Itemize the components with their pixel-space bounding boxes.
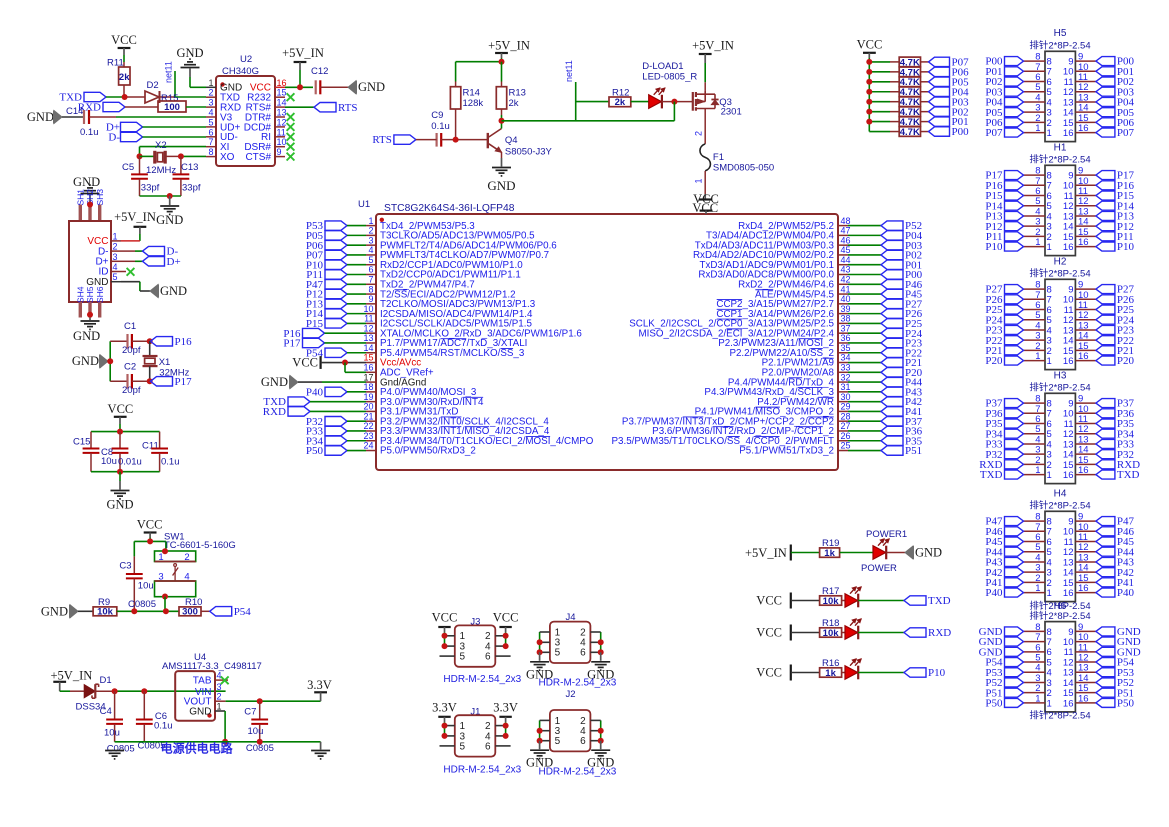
svg-text:GND: GND [156,213,183,227]
svg-text:U2: U2 [240,54,252,65]
port flag P04 (U1 pin 47) [848,234,881,236]
port flag P11 (header H1 pin 2) [1005,232,1024,241]
port flag TXD [904,596,926,605]
port flag P41 (header H4 pin 2) [1005,578,1024,587]
junction [131,608,137,614]
svg-text:5: 5 [555,736,561,747]
svg-text:17: 17 [363,372,373,382]
svg-text:20pf: 20pf [122,385,141,396]
ground flag GND (USB pin5) [150,285,158,298]
svg-text:10: 10 [277,137,287,147]
junction [442,633,448,639]
U1 pin 5 RxD2/CCP1/ADC0/PWM10/P1.0 [366,264,376,266]
port flag P44 (header H4 pin 5) [1005,547,1024,556]
U1 pin 47 T3/AD4/ADC12/PWM04/P0.4 [838,234,848,236]
junction [537,639,543,645]
port flag RXD [103,102,125,111]
svg-text:J2: J2 [566,689,576,700]
U2 pin 2 TXD [206,96,216,98]
svg-text:C5: C5 [122,162,134,173]
svg-text:1: 1 [1047,470,1052,481]
port flag P37 (header H3 pin 9) [1096,399,1115,408]
svg-text:10k: 10k [823,596,840,607]
svg-text:P10: P10 [928,667,946,679]
svg-text:P54: P54 [234,606,252,618]
svg-text:1: 1 [208,78,213,88]
svg-text:36: 36 [841,333,851,343]
USB connector shell pins SH4 SH5 SH6 [79,302,82,318]
svg-text:0.1u: 0.1u [154,721,173,732]
header H2 body [1045,279,1075,369]
port flag P42 (U1 pin 30) [848,401,881,403]
port flag P35 (header H3 pin 11) [1096,419,1115,428]
svg-text:47: 47 [841,226,851,236]
svg-text:7: 7 [208,137,213,147]
port flag RXD (header H3 pin 2) [1005,460,1024,469]
svg-text:排针2*8P-2.54: 排针2*8P-2.54 [1029,710,1090,722]
U1 pin 31 P4.3/PWM43/RxD_4/¬SCLK¬_3 [838,391,848,393]
svg-text:1: 1 [1047,242,1052,253]
svg-text:P07: P07 [1117,127,1135,139]
port flag P25 (header H2 pin 6) [1005,305,1024,314]
port flag RTS (C9) [394,135,416,144]
port flag P33 (header H3 pin 13) [1096,439,1115,448]
U1 pin 18 P4.0/PWM40/MOSI_3 [366,391,376,393]
U1 pin 43 RxD3/AD0/ADC8/PWM00/P0.0 [838,274,848,276]
svg-text:P50: P50 [306,445,324,457]
junction [866,119,872,125]
port flag P25 (U1 pin 38) [848,322,881,324]
port flag D+ (USB) [143,257,165,266]
U1 pin 15 Vcc/AVcc [366,362,376,364]
port flag P14 (U1 pin 10) [325,309,347,318]
resistor R (4.7K) row 2 [869,71,890,73]
port flag P22 (U1 pin 35) [848,352,881,354]
svg-text:+5V_IN: +5V_IN [51,669,93,683]
svg-text:7: 7 [368,274,373,284]
U1 pin 41 ¬ALE¬/PWM45/P4.5 [838,293,848,295]
USB connector shell pins SH1 SH2 SH3 [79,205,82,222]
no-connect X on U2 pin 9 [287,153,295,161]
junction [442,643,448,649]
port flag P23 (U1 pin 36) [848,342,881,344]
port flag P53 (U1 pin 1) [325,221,347,230]
svg-text:9: 9 [277,147,282,157]
svg-text:GND: GND [41,604,68,618]
port flag P32 (header H3 pin 3) [1005,450,1024,459]
svg-text:1: 1 [1047,356,1052,367]
svg-text:POWER: POWER [861,563,897,574]
port flag P23 (header H2 pin 4) [1005,325,1024,334]
wire [440,655,455,657]
svg-text:2k: 2k [615,97,626,108]
U1 pin 2 T3CLKO/AD5/ADC13/PWM05/P0.5 [366,234,376,236]
svg-text:48: 48 [841,216,851,226]
svg-text:GND: GND [73,175,100,189]
wire (net to Q3 gate) [502,120,675,122]
wire [704,171,706,194]
svg-text:P17: P17 [283,338,301,350]
port flag TXD (header H3 pin 16) [1096,470,1115,479]
svg-text:P00: P00 [952,126,970,138]
svg-text:24: 24 [363,441,373,451]
svg-text:300: 300 [182,607,198,618]
svg-text:2: 2 [208,88,213,98]
wire [60,690,70,692]
port flag P07 (header H5 pin 1) [1005,128,1024,137]
no-connect X on U2 pin 10 [287,143,295,151]
port flag P21 (header H2 pin 15) [1096,346,1115,355]
svg-text:2: 2 [184,552,189,563]
svg-text:X2: X2 [155,140,167,151]
wire [95,690,114,692]
port flag D- (USB) [143,246,165,255]
port flag P40 (header H4 pin 16) [1096,588,1115,597]
svg-text:GND: GND [86,277,108,288]
svg-text:0.1u: 0.1u [431,121,450,132]
port flag P54 (header H6 pin 5) [1005,658,1024,667]
junction [866,89,872,95]
wire [444,632,446,646]
junction [442,733,448,739]
svg-text:H3: H3 [1054,371,1067,382]
resistor R (4.7K) row 4 [869,91,890,93]
port flag P12 (header H1 pin 3) [1005,222,1024,231]
junction [257,698,263,704]
port flag P35 (U1 pin 26) [848,440,881,442]
svg-text:GND: GND [72,354,99,368]
svg-text:10k: 10k [97,607,114,618]
wire [165,155,181,157]
wire [868,58,870,132]
svg-text:11: 11 [277,127,286,137]
port flag P54 (header H6 pin 12) [1096,658,1115,667]
wire [108,360,110,362]
svg-text:GND: GND [176,46,203,60]
wire [299,70,301,87]
wires J4 to ground [539,632,541,652]
port flag P32 (U1 pin 21) [325,417,347,426]
port flag P01 (pullup row 7) [929,117,950,126]
U1 pin 3 PWMFLT2/T4/AD6/ADC14/PWM06/P0.6 [366,244,376,246]
svg-text:P40: P40 [985,587,1003,599]
junction [147,338,153,344]
svg-text:P5.1/PWM51/TxD3_2: P5.1/PWM51/TxD3_2 [739,446,834,457]
svg-text:P50: P50 [985,697,1003,709]
svg-text:+5V_IN: +5V_IN [692,39,734,53]
U2 pin 15 R232 [275,96,285,98]
svg-text:P20: P20 [1117,355,1135,367]
U2 pin 7 XI [206,146,216,148]
svg-text:排针2*8P-2.54: 排针2*8P-2.54 [1029,40,1090,52]
svg-text:13: 13 [277,108,287,118]
junction [137,153,143,159]
svg-text:16: 16 [363,363,373,373]
port flag P17 (header H1 pin 8) [1005,171,1024,180]
port flag P10 (U1 pin 5) [325,260,347,269]
svg-text:5: 5 [368,255,373,265]
port flag P26 (U1 pin 39) [848,313,881,315]
wire [444,722,446,736]
U1 pin 23 P3.4/PWM34/T0/T1CLKO/ECI_2/¬MOSI¬_4/CMPO [366,440,376,442]
svg-text:9: 9 [368,294,373,304]
svg-text:STC8G2K64S4-36I-LQFP48: STC8G2K64S4-36I-LQFP48 [384,203,515,214]
wire [858,632,904,634]
port flag P47 (header H4 pin 8) [1005,517,1024,526]
wire [140,146,207,148]
svg-text:VCC: VCC [292,355,318,369]
svg-text:H2: H2 [1054,257,1067,268]
port flag P25 (header H2 pin 11) [1096,305,1115,314]
wire [140,155,155,157]
svg-text:39: 39 [841,304,851,314]
svg-text:P40: P40 [306,386,324,398]
port flag P36 (U1 pin 27) [848,430,881,432]
port flag P06 (pullup row 2) [929,67,950,76]
junction [222,739,228,745]
resistor R13 [501,62,503,82]
junction [147,538,153,544]
U1 pin 36 P2.3/PWM23/A11/¬MOSI¬_2 [838,342,848,344]
svg-text:1k: 1k [825,668,836,679]
svg-text:CTS#: CTS# [245,152,271,163]
svg-text:4.7K: 4.7K [900,127,920,138]
no-connect X on U2 pin 11 [287,133,295,141]
port flag RXD [904,628,926,637]
svg-text:12: 12 [363,323,373,333]
U1 pin 26 P3.5/PWM35/T1/T0CLKO/¬SS¬_4/¬CCP0¬_2/PWMFLT [838,440,848,442]
wire [139,234,141,241]
port flag P16 (header H1 pin 7) [1005,181,1024,190]
ground GND (J4 right) [600,652,602,661]
port flag P04 (pullup row 4) [929,87,950,96]
port flag P15 (header H1 pin 11) [1096,191,1115,200]
U1 pin 24 P5.0/PWM50/RxD3_2 [366,450,376,452]
U1 pin 1 TxD4_2/PWM53/P5.3 [366,225,376,227]
wire [501,58,503,62]
U1 pin 32 P4.4/PWM44/¬RD¬/TxD_4 [838,381,848,383]
svg-text:2: 2 [112,242,117,252]
port flag RXD (U1 pin 20) [288,407,310,416]
svg-text:P5.0/PWM50/RxD3_2: P5.0/PWM50/RxD3_2 [380,446,476,457]
U2 pin 9 CTS# [275,156,285,158]
svg-text:C12: C12 [311,66,328,77]
svg-text:net11: net11 [564,60,574,82]
port flag P11 (U1 pin 6) [325,270,347,279]
U1 pin 6 TxD2/CCP0/ADC1/PWM11/P1.1 [366,274,376,276]
svg-text:4: 4 [368,245,373,255]
port flag P37 (header H3 pin 8) [1005,399,1024,408]
wire [791,600,820,602]
port flag GND (header H6 pin 10) [1096,637,1115,646]
port flag P22 (header H2 pin 3) [1005,336,1024,345]
port flag GND (header H6 pin 11) [1096,647,1115,656]
ground flag GND (right of C12) [348,81,356,94]
svg-text:XO: XO [220,152,235,163]
port flag P46 (header H4 pin 7) [1005,527,1024,536]
port flag GND (header H6 pin 9) [1096,627,1115,636]
svg-text:HDR-M-2.54_2x3: HDR-M-2.54_2x3 [443,674,521,685]
svg-text:38: 38 [841,314,851,324]
port flag P40 (U1 pin 18) [325,387,347,396]
svg-text:LED-0805_R: LED-0805_R [642,72,697,83]
svg-text:RXD: RXD [263,406,286,418]
svg-text:33pf: 33pf [182,182,201,193]
U2 pin 16 VCC [275,86,285,88]
wire [501,115,503,129]
svg-text:排针2*8P-2.54: 排针2*8P-2.54 [1029,268,1090,280]
svg-text:VCC: VCC [137,518,163,532]
svg-text:3: 3 [112,252,117,262]
U1 pin 38 SCLK_2/I2CSCL_2/¬CCP0¬_3/A13/PWM25/P2.5 [838,322,848,324]
wire [673,102,675,121]
svg-text:2k: 2k [509,98,519,109]
svg-text:16: 16 [1063,128,1074,139]
svg-text:2: 2 [217,692,222,702]
svg-text:41: 41 [841,284,851,294]
junction [117,469,123,475]
svg-text:VCC: VCC [493,611,519,625]
U1 pin 7 TxD2_2/PWM47/P4.7 [366,283,376,285]
svg-text:1: 1 [1047,588,1052,599]
svg-text:0.01u: 0.01u [118,456,142,467]
port flag P12 (header H1 pin 14) [1096,222,1115,231]
port flag P01 (header H5 pin 7) [1005,67,1024,76]
svg-text:18: 18 [363,382,373,392]
header H6 body [1045,622,1075,712]
svg-text:+5V_IN: +5V_IN [282,46,324,60]
port flag P11 (header H1 pin 15) [1096,232,1115,241]
svg-text:4: 4 [112,262,117,272]
wire [662,101,693,103]
svg-text:42: 42 [841,274,851,284]
svg-text:H4: H4 [1054,489,1067,500]
port flag P02 (U1 pin 45) [848,254,881,256]
port flag P07 (header H5 pin 16) [1096,128,1115,137]
port flag P53 (header H6 pin 13) [1096,668,1115,677]
port flag P02 (header H5 pin 11) [1096,77,1115,86]
svg-text:1: 1 [158,552,163,563]
port flag P14 (header H1 pin 12) [1096,201,1115,210]
svg-text:1: 1 [112,231,117,241]
wire [858,672,904,674]
U1 pin 9 T2CLKO/MOSI/ADC3/PWM13/P1.3 [366,303,376,305]
svg-text:16: 16 [1063,470,1074,481]
port flag P36 (header H3 pin 10) [1096,409,1115,418]
wire [704,109,706,144]
U1 pin 13 P1.7/PWM17/¬ADC7¬/TxD_3/XTALI [366,342,376,344]
port flag P35 (header H3 pin 6) [1005,419,1024,428]
port flag P05 (header H5 pin 14) [1096,108,1115,117]
svg-text:16: 16 [1078,583,1089,594]
svg-text:5: 5 [460,652,466,663]
svg-text:HDR-M-2.54_2x3: HDR-M-2.54_2x3 [443,765,521,776]
svg-text:5: 5 [208,117,213,127]
svg-text:GND: GND [160,284,187,298]
port flag P37 (U1 pin 28) [848,420,881,422]
port flag TXD (header H3 pin 1) [1005,470,1024,479]
wire [149,538,151,542]
port flag P13 (header H1 pin 4) [1005,211,1024,220]
U1 pin 40 ¬CCP2¬_3/A15/PWM27/P2.7 [838,303,848,305]
U2 pin 13 DTR# [275,116,285,118]
port flag P03 (header H5 pin 5) [1005,87,1024,96]
port flag P44 (header H4 pin 12) [1096,547,1115,556]
svg-text:0.1u: 0.1u [161,456,180,467]
ground GND (C8 block) [119,472,121,481]
port flag P03 (pullup row 5) [929,97,950,106]
svg-text:16: 16 [1063,588,1074,599]
resistor R (4.7K) row 6 [869,111,890,113]
svg-text:8: 8 [368,284,373,294]
svg-text:6: 6 [368,265,373,275]
wire [123,55,125,62]
wire [189,77,191,87]
junction [499,59,505,65]
svg-text:GND: GND [27,110,54,124]
svg-text:2301: 2301 [721,107,742,118]
wire [704,63,706,82]
U2 pin 12 DCD# [275,126,285,128]
junction [87,202,93,208]
svg-text:16: 16 [277,78,287,88]
svg-text:20: 20 [363,402,373,412]
svg-text:25: 25 [841,441,851,451]
port flag P50 (header H6 pin 16) [1096,698,1115,707]
junction [297,84,303,90]
wire [117,610,179,612]
port flag P41 (header H4 pin 15) [1096,578,1115,587]
svg-text:29: 29 [841,402,851,412]
wire [320,86,348,88]
svg-text:2k: 2k [119,72,130,83]
svg-text:D2: D2 [147,80,159,91]
svg-text:16: 16 [1063,698,1074,709]
svg-text:10u: 10u [138,581,154,592]
U1 pin 29 P4.1/PWM41/¬MISO¬_3/CMPO_2 [838,410,848,412]
svg-text:TC-6601-5-160G: TC-6601-5-160G [164,540,236,551]
svg-text:TXD: TXD [928,595,951,607]
U1 pin 28 P3.7/PWM37/¬INT3¬/TxD_2/CMP+/CCP2_2/¬CCP2¬ [838,420,848,422]
svg-text:5: 5 [460,741,466,752]
junction [537,649,543,655]
svg-text:SMD0805-050: SMD0805-050 [713,163,774,174]
wire [121,281,140,283]
svg-text:1k: 1k [824,548,835,559]
ground (U4 left) [105,750,124,752]
port flag P00 (header H5 pin 9) [1096,57,1115,66]
port flag P40 (header H4 pin 1) [1005,588,1024,597]
U1 pin 19 P3.0/PWM30/RxD/¬INT4¬ [366,401,376,403]
U1 pin 42 RxD2_2/PWM46/P4.6 [838,283,848,285]
svg-text:35: 35 [841,343,851,353]
U1 pin 25 P5.1/PWM51/TxD3_2 [838,450,848,452]
svg-text:HDR-M-2.54_2x3: HDR-M-2.54_2x3 [538,678,616,689]
header H5 body [1045,51,1075,141]
power flag VCC (below F1) [699,198,712,200]
svg-text:U1: U1 [358,199,370,210]
svg-text:19: 19 [363,392,373,402]
svg-text:14: 14 [277,98,287,108]
svg-text:128k: 128k [463,98,484,109]
svg-text:37: 37 [841,323,851,333]
svg-text:TXD: TXD [980,469,1003,481]
resistor R (4.7K) row 3 [869,81,890,83]
wire [149,341,151,356]
svg-text:Q4: Q4 [505,135,518,146]
svg-text:P16: P16 [175,336,193,348]
wires J2 to ground [539,720,541,740]
